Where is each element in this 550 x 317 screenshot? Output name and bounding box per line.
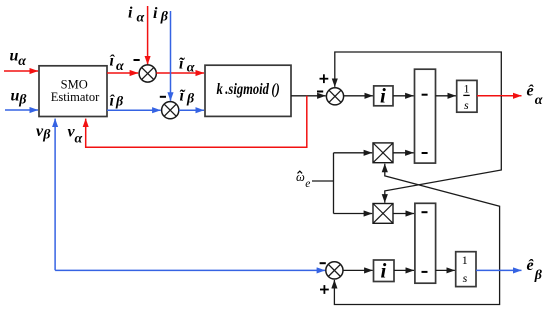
summing junction S3 (326, 88, 343, 105)
block subtract1 (415, 69, 436, 163)
svg-text:β: β (186, 91, 195, 106)
svg-text:α: α (75, 132, 83, 147)
label e_beta_hat (527, 257, 543, 283)
summing junction S2 (162, 102, 179, 119)
wire sub1 to int1 (436, 95, 456, 97)
wire sum2 to ksigmoid (179, 109, 204, 111)
svg-text:ê: ê (527, 257, 535, 274)
svg-text:u: u (10, 48, 19, 65)
plus sign sum3 top (320, 74, 329, 83)
label omega_e (296, 170, 310, 190)
wire M2 to sub2 (393, 213, 414, 215)
wire SMO to sum2 (107, 109, 161, 111)
wire i1 to sub1 (393, 95, 414, 97)
minus sign sum2 (160, 96, 166, 98)
wire v_alpha feedback (86, 96, 307, 147)
svg-text:î: î (110, 53, 116, 70)
svg-text:i: i (381, 259, 387, 283)
wire ksigmoid to sum3 (291, 95, 326, 97)
svg-text:α: α (18, 54, 26, 69)
label u_beta (11, 88, 28, 108)
wire u_beta input (5, 109, 38, 111)
wire feedback bottom into sum4 (334, 270, 499, 304)
label i_alpha_hat (110, 53, 125, 75)
svg-text:k .sigmoid (): k .sigmoid () (217, 81, 280, 98)
label v_alpha (68, 124, 83, 147)
block i1 (374, 84, 393, 108)
summing junction S1 (139, 65, 156, 82)
svg-text:e: e (305, 178, 310, 190)
wire v_beta horizontal to sum4 (55, 269, 325, 271)
block i2 (374, 259, 395, 283)
svg-text:β: β (160, 9, 169, 24)
wire sum3 to i1 (344, 95, 373, 97)
wire cross from e_beta to M1 (385, 164, 500, 271)
wire SMO to sum1 (107, 72, 138, 74)
label i_alpha (128, 5, 145, 26)
svg-text:u: u (11, 88, 20, 105)
minus sign sum3 left (317, 91, 323, 93)
minus sign sum4 left (320, 262, 326, 264)
wire sum4 to i2 (343, 269, 373, 271)
wire M1 to sub1 (393, 152, 414, 154)
label u_alpha (10, 48, 27, 70)
svg-text:Estimator: Estimator (51, 90, 100, 104)
svg-text:s: s (463, 271, 468, 285)
minus sign sum1 (134, 59, 140, 61)
multiplier M2 (373, 204, 393, 224)
wire omega split vertical (333, 153, 335, 214)
wire omega to mult1 (334, 152, 373, 154)
label v_beta (36, 123, 51, 142)
label i_beta (153, 5, 169, 24)
multiplier M1 (373, 143, 393, 163)
svg-text:α: α (116, 59, 124, 74)
plus sign sum4 bottom (320, 285, 329, 294)
svg-text:α: α (137, 11, 145, 26)
label i_beta_tilde (180, 88, 196, 107)
svg-text:i: i (128, 5, 133, 22)
svg-text:i: i (153, 5, 158, 22)
label e_alpha_hat (527, 83, 543, 109)
svg-text:î: î (110, 92, 116, 109)
wire cross from e_alpha to M2 (385, 96, 502, 203)
wire i_alpha vertical (147, 6, 149, 65)
svg-text:β: β (42, 127, 51, 142)
svg-text:1: 1 (464, 82, 470, 96)
wire omega to mult2 (334, 213, 373, 215)
wire i_beta vertical (170, 11, 172, 101)
wire sub2 to int2 (436, 269, 455, 271)
block subtract2 (415, 203, 436, 283)
wire u_alpha input (4, 70, 38, 72)
summing junction S4 (326, 262, 343, 279)
wire sum1 to ksigmoid (156, 72, 204, 74)
wire e_alpha output (477, 95, 522, 97)
svg-text:1: 1 (462, 253, 468, 267)
wire omega to split (312, 180, 334, 182)
wire e_beta output (476, 269, 522, 271)
block SMO Estimator (39, 66, 107, 117)
wire i2 to sub2 (394, 269, 414, 271)
svg-text:s: s (464, 98, 469, 112)
svg-text:α: α (535, 93, 543, 108)
block integrator1 (457, 80, 477, 112)
wire v_beta feedback (54, 119, 56, 271)
label i_beta_hat (110, 92, 125, 109)
svg-text:ĩ: ĩ (179, 56, 185, 73)
svg-text:ĩ: ĩ (180, 88, 186, 105)
svg-text:β: β (534, 268, 543, 283)
svg-text:i: i (380, 84, 386, 108)
svg-text:ê: ê (527, 83, 535, 100)
block integrator2 (456, 252, 476, 287)
block k.sigmoid (205, 65, 291, 116)
svg-text:β: β (115, 95, 124, 110)
svg-text:β: β (18, 93, 27, 108)
label i_alpha_tilde (179, 56, 195, 76)
wire feedback top into sum3 (335, 52, 502, 96)
